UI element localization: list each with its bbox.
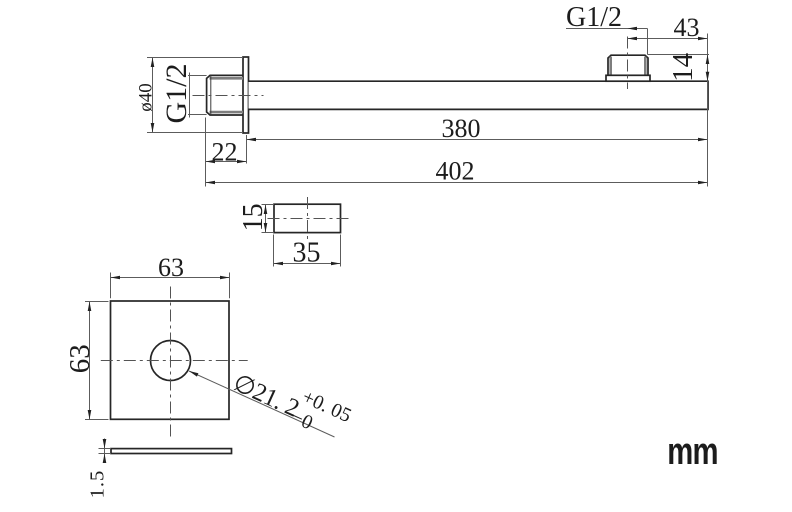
svg-text:380: 380	[442, 114, 481, 143]
nipple base flange	[606, 75, 650, 81]
svg-text:402: 402	[436, 157, 475, 186]
center hole circle	[151, 341, 191, 381]
label hole diameter with tolerance (rotated along leader)	[227, 358, 354, 448]
svg-text:mm: mm	[667, 430, 717, 473]
hole leader line	[189, 371, 335, 437]
dimension 63 top	[111, 273, 230, 299]
svg-text:22: 22	[212, 138, 238, 167]
svg-text:1.5: 1.5	[87, 470, 109, 499]
svg-text:G1/2: G1/2	[566, 2, 622, 33]
dimension 14	[648, 55, 709, 82]
dimension 22	[206, 118, 247, 187]
svg-text:43: 43	[674, 13, 700, 42]
nipple centerline	[627, 37, 629, 90]
dimension 15	[262, 205, 275, 233]
svg-text:35: 35	[293, 238, 321, 269]
wall flange plate	[243, 57, 249, 133]
leader G1/2 top	[566, 29, 648, 55]
section rectangle	[274, 204, 341, 232]
svg-text:G1/2: G1/2	[160, 64, 193, 124]
nipple thread lines	[611, 57, 646, 76]
shower arm body	[249, 81, 709, 109]
plate horizontal centerline	[101, 360, 248, 362]
dimension o40	[147, 58, 243, 133]
thin plate	[111, 449, 232, 454]
svg-text:15: 15	[238, 203, 269, 231]
dimension 380	[247, 139, 708, 141]
dimension 43	[628, 38, 708, 40]
section centerlines	[307, 197, 309, 240]
svg-text:63: 63	[64, 344, 96, 373]
square plate	[111, 301, 230, 419]
pipe thread lines	[210, 78, 244, 112]
svg-text:63: 63	[158, 253, 184, 282]
dimension G1/2 left (thread size)	[188, 73, 207, 118]
dimension 402	[206, 34, 708, 187]
nipple body	[608, 55, 648, 75]
svg-text:14: 14	[667, 52, 699, 82]
dimension 1.5	[99, 439, 112, 461]
svg-text:ø40: ø40	[136, 83, 157, 112]
pipe chamfer relief line	[210, 75, 212, 115]
centerline left fitting	[193, 95, 264, 97]
plate vertical centerline	[170, 287, 172, 438]
dimension 35	[274, 235, 341, 267]
dimension 63 left	[85, 302, 109, 420]
threaded wall pipe G1/2	[207, 75, 243, 115]
